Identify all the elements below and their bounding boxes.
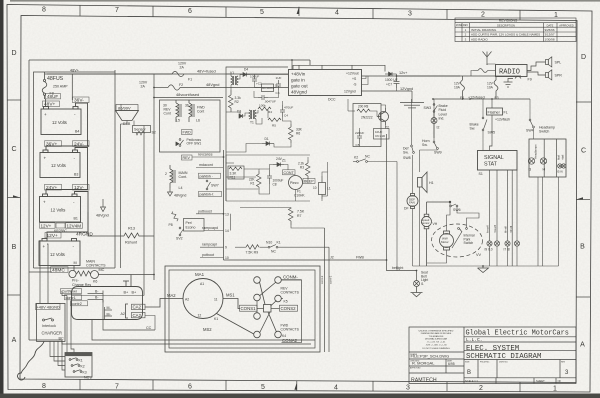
contact circle L4 bottom xyxy=(254,331,261,338)
wire contacts right box xyxy=(281,280,301,343)
centering arrow left xyxy=(8,195,21,197)
label CONT boxed xyxy=(283,170,296,175)
wire K5 tie xyxy=(281,298,283,300)
capacitor 470UF C4 xyxy=(280,105,285,117)
wire battery box bottom tie xyxy=(34,267,116,269)
fuse F3 xyxy=(494,76,498,99)
label parkbrk-t xyxy=(199,191,222,196)
wire MS1 xyxy=(223,299,240,309)
lamp I7 xyxy=(505,241,510,246)
wire contact diagonal 5 xyxy=(271,301,277,307)
speaker SPR xyxy=(527,70,552,80)
wire 12Vout rail xyxy=(362,75,461,77)
wire 4RGND tap xyxy=(88,212,124,236)
diode D1 xyxy=(262,142,274,146)
capacitor .0047UF xyxy=(258,95,268,100)
IC MC34063 xyxy=(262,84,274,92)
wire CA2 lower to B- rail xyxy=(145,316,155,331)
label BEEP boxed xyxy=(303,178,315,183)
motor MA1 circle xyxy=(183,279,223,319)
flasher box FL xyxy=(487,108,503,115)
label 24V- battery2 xyxy=(73,141,90,148)
resistor 100k R4 xyxy=(258,107,271,111)
label +48V 48GND xyxy=(36,304,61,310)
capacitor 100UF C2 xyxy=(252,75,257,82)
switch SW3 xyxy=(433,104,437,113)
main contact circle M xyxy=(69,270,76,277)
label 36V- battery1 xyxy=(73,97,90,104)
controller M- pins xyxy=(105,307,113,319)
transformer T1 xyxy=(249,110,256,119)
contact circle R2 xyxy=(275,295,282,302)
transformer V1 xyxy=(231,76,238,85)
main contact circle K6 xyxy=(91,271,99,279)
antenna xyxy=(483,52,492,66)
lamp I1 seat belt xyxy=(414,271,420,287)
label REV boxed xyxy=(182,155,193,160)
label FWD boxed xyxy=(182,130,193,135)
wire +S -S loopback xyxy=(362,76,369,85)
label parkbrk xyxy=(199,173,221,178)
T2 section box xyxy=(353,104,381,147)
wire contact diagonal 3 xyxy=(268,312,277,332)
label CONS2 boxed xyxy=(280,305,298,311)
capacitor 220UF C5 xyxy=(357,130,362,143)
wire contact vertical tie xyxy=(256,301,258,313)
label CONA2 xyxy=(282,338,302,343)
ground seat belt xyxy=(411,287,423,297)
diode D5 xyxy=(176,142,179,146)
wire lamps to gnd rail xyxy=(490,246,518,266)
centering arrow top xyxy=(297,7,299,16)
wire controller loop bottom2 xyxy=(29,340,311,344)
fuse F4 xyxy=(461,76,465,99)
label 24V+ battery3 xyxy=(45,184,62,191)
wire F3 down to flasher xyxy=(491,99,493,108)
transistor 2N2222 T2 xyxy=(377,108,389,125)
wire headlamps down xyxy=(538,177,559,266)
label CA2 upper xyxy=(132,304,146,310)
wire left leg T2 xyxy=(348,110,353,112)
lamp I6 xyxy=(561,164,565,168)
label contr1 xyxy=(65,295,82,300)
box 10UF C6 L1D xyxy=(374,129,390,140)
relay K2 xyxy=(71,364,80,367)
capacitor 1000uF C8 xyxy=(267,170,272,184)
diode D3 xyxy=(239,114,243,118)
wire SW4 net xyxy=(529,99,531,119)
diode D4 xyxy=(240,73,250,77)
label CA2 lower xyxy=(132,312,146,318)
ground radio xyxy=(504,79,514,88)
pre-charge resistor xyxy=(77,271,91,276)
resistor 7.5K R7 xyxy=(289,208,294,226)
inductor L1 xyxy=(319,176,326,199)
wire signal stat outputs xyxy=(490,170,518,266)
headlamp box xyxy=(529,139,566,177)
wire B1- down to main contact xyxy=(73,266,75,271)
speed sensor VH xyxy=(422,202,432,266)
wire 48V+fused rail xyxy=(47,73,172,75)
wire DU L2 bus xyxy=(224,260,417,271)
label 12V+ battery4 row xyxy=(40,223,56,229)
ground 48Vgnd under L4 xyxy=(168,188,173,196)
contact circle R1 top xyxy=(275,277,282,284)
contact center junction square xyxy=(264,305,272,313)
border tick marks right xyxy=(576,101,591,103)
resistor 200 R8 xyxy=(357,109,370,113)
fuse radio inline xyxy=(478,69,488,73)
wire DCC feed vertical xyxy=(291,60,293,70)
lamp I9 xyxy=(487,241,492,246)
resistor P8 xyxy=(171,211,179,222)
resistor 22K R1 xyxy=(257,171,262,190)
wire MS2 xyxy=(217,314,254,335)
wire 48V+ top rail xyxy=(45,73,288,75)
zener 24V Z1 xyxy=(273,163,284,167)
contact circle R3 bottom xyxy=(275,331,282,338)
scan edge left xyxy=(0,0,4,398)
ground 12Vgnd hatched xyxy=(400,91,424,108)
centering arrow right xyxy=(576,197,590,199)
diode D6 on 12v+ feed xyxy=(385,72,460,76)
speaker SPL xyxy=(527,57,552,71)
converter section box xyxy=(226,67,288,201)
lamp I5 xyxy=(558,164,562,168)
label 86/99V xyxy=(116,105,138,111)
wire charger outputs down xyxy=(50,342,65,371)
wire R7 net xyxy=(291,225,325,228)
wire mdacont xyxy=(196,167,223,169)
wire contr lines down to relay box xyxy=(62,291,74,353)
radio box xyxy=(496,65,528,77)
wire SW5 net xyxy=(482,99,484,117)
speaker horn H1 xyxy=(418,172,428,193)
switch SW2 xyxy=(179,227,183,236)
wire B2- to B3+ xyxy=(46,148,88,195)
resistor 33K R6 xyxy=(289,124,294,143)
wire piezo mesh xyxy=(244,157,328,201)
wire CONS2 tie xyxy=(271,308,280,310)
switch SW1 pedicross xyxy=(179,139,183,147)
capacitor 1UF C3 xyxy=(276,80,281,90)
wire CONS1 tie xyxy=(257,308,264,310)
label 36V+ battery2 xyxy=(45,141,62,148)
contact circle L2 xyxy=(254,294,261,301)
capacitor 1000UF C7 xyxy=(394,76,400,88)
battery B2 xyxy=(40,194,81,222)
resistor R5 xyxy=(268,118,281,122)
switch SW4 xyxy=(529,119,534,128)
controller box xyxy=(72,287,143,320)
coil MAIN Cont L4 xyxy=(170,165,175,188)
relay K1 xyxy=(69,358,78,361)
AC plug xyxy=(18,373,25,380)
piezo circle xyxy=(289,176,303,190)
wire DCC top connector run xyxy=(293,65,385,71)
wire +12vfused rail xyxy=(433,98,530,100)
battery B1 (bottom) xyxy=(39,239,80,266)
wire 12Vgnd out xyxy=(362,90,413,92)
motor enclosure inner box xyxy=(169,270,315,348)
wire contact diagonal 1 xyxy=(260,282,277,296)
park switch contacts xyxy=(452,228,467,248)
label 12V4M xyxy=(66,223,83,229)
label CurtNpwr xyxy=(61,289,82,294)
wire wiper risers xyxy=(427,203,479,263)
wire revcance xyxy=(192,156,223,158)
resistor R13 Rshunt xyxy=(124,233,154,238)
sensor zigzag xyxy=(136,131,145,135)
wire I2 down xyxy=(433,124,435,139)
battery B4 (top) xyxy=(41,107,81,135)
label 48MC xyxy=(51,267,69,274)
charger box xyxy=(37,303,66,341)
contact circle L1 top xyxy=(254,277,261,284)
motor enclosure outer box xyxy=(165,266,320,352)
wire 48MC left drop xyxy=(29,271,52,273)
fuse 48FUS xyxy=(42,72,47,99)
section box xyxy=(226,155,310,201)
resistor 3.3k R2 xyxy=(229,90,234,112)
wiper switch SW6 xyxy=(427,201,458,207)
wire converter internals mesh xyxy=(226,74,291,152)
wire C7 to gnd xyxy=(396,88,398,91)
switch SW8 xyxy=(411,145,415,153)
resistor 2.2k R3 xyxy=(306,160,311,179)
border tick marks bottom xyxy=(79,379,81,390)
scan edge bottom xyxy=(0,394,600,398)
lamp I8 xyxy=(514,241,519,246)
wire K2 net xyxy=(353,161,397,163)
wire gnd rail collect xyxy=(413,265,559,267)
wiper motor dashed ellipse xyxy=(432,224,483,257)
label 12V- battery3 xyxy=(73,184,90,191)
border tick marks left xyxy=(7,99,21,101)
wire B3- to B4+ xyxy=(47,192,88,240)
ground right section xyxy=(478,266,489,273)
label contr2 xyxy=(71,301,88,306)
battery B3 xyxy=(40,150,80,178)
wire B- net xyxy=(103,300,155,331)
interlock switch xyxy=(43,318,54,321)
fuse F1 xyxy=(172,71,184,76)
small box between labels xyxy=(56,223,65,228)
wire controller loop bottom xyxy=(92,320,315,341)
wire CA2 to motor MA2 xyxy=(145,299,183,308)
wire pin bus vertical xyxy=(223,150,225,260)
wire 48Vgnd rail xyxy=(154,87,168,89)
switch SW9 xyxy=(433,141,438,149)
controller B- pins xyxy=(88,291,104,303)
ground 48Vgnd battery area xyxy=(101,199,106,212)
contact circle L3 xyxy=(254,313,261,320)
wire flasher down xyxy=(490,115,493,151)
controller A2 bracket xyxy=(126,304,129,318)
wire content box top xyxy=(28,60,30,272)
wire vertical x144 sensor drop xyxy=(143,132,145,296)
lamp I2 xyxy=(431,112,437,123)
wire 48GND up from charger xyxy=(47,244,48,303)
resistor 3.3K R11 boxed xyxy=(228,166,244,179)
wire motor box right verticals xyxy=(324,228,326,352)
wire antenna to radio xyxy=(487,64,496,65)
label 48V+ battery1 xyxy=(43,101,60,108)
wire contact diagonal 2 xyxy=(260,282,266,305)
wire 48vcontfused rail xyxy=(154,97,223,99)
switch K2 NC xyxy=(357,159,368,163)
switch SW5 xyxy=(482,117,487,131)
wire battery bus right edge xyxy=(114,70,116,268)
wire battery section outline box xyxy=(34,72,116,268)
sensor box xyxy=(133,126,151,133)
label 48UF xyxy=(46,94,61,100)
wire main contacts to controller B+ xyxy=(99,275,155,281)
label 12V+ battery4 xyxy=(45,232,61,239)
relay K3 xyxy=(73,370,82,373)
wire +48V up from charger xyxy=(39,240,41,303)
label CONM- xyxy=(282,275,302,280)
AC cord wavy xyxy=(21,342,44,374)
wire K3 right xyxy=(278,246,329,248)
wire H1/DF risers xyxy=(412,99,438,266)
wire 12v+ rail to radio riser xyxy=(460,71,479,77)
relay box K1 K2 K3 xyxy=(65,353,92,378)
wire funnel taps xyxy=(121,104,145,133)
wire contact diagonal 4 xyxy=(260,312,271,333)
wire vertical x120 xyxy=(120,124,122,268)
wire T2 mesh xyxy=(353,105,386,147)
lamp I10 xyxy=(494,241,499,246)
coil REV Cont L5 xyxy=(176,100,181,122)
switch SW7 xyxy=(206,180,210,190)
lamp I3 xyxy=(528,158,534,164)
coil FWD Cont L6 xyxy=(189,100,194,122)
wire B1- to B2+ xyxy=(46,103,88,150)
scan edge top xyxy=(10,0,600,2)
lamp I4 xyxy=(540,158,546,164)
border tick marks top xyxy=(79,5,81,16)
motor DF def fan xyxy=(407,194,418,209)
label CONS1 boxed xyxy=(240,305,258,311)
wire K2 to beltlght vertical xyxy=(396,162,398,271)
box Per/Econo xyxy=(184,219,205,232)
centering arrow bottom xyxy=(294,381,296,391)
fuse F9 under radio xyxy=(515,76,521,78)
resistor 7.5K R9 xyxy=(246,245,259,250)
wire main 12v drop vertical xyxy=(386,134,388,260)
voltage monitor funnel xyxy=(116,111,139,121)
fuse F2 xyxy=(168,85,180,90)
wire vertical x154 xyxy=(153,74,155,275)
wiper motor WW xyxy=(440,231,454,250)
switch K3 NC xyxy=(268,245,278,249)
